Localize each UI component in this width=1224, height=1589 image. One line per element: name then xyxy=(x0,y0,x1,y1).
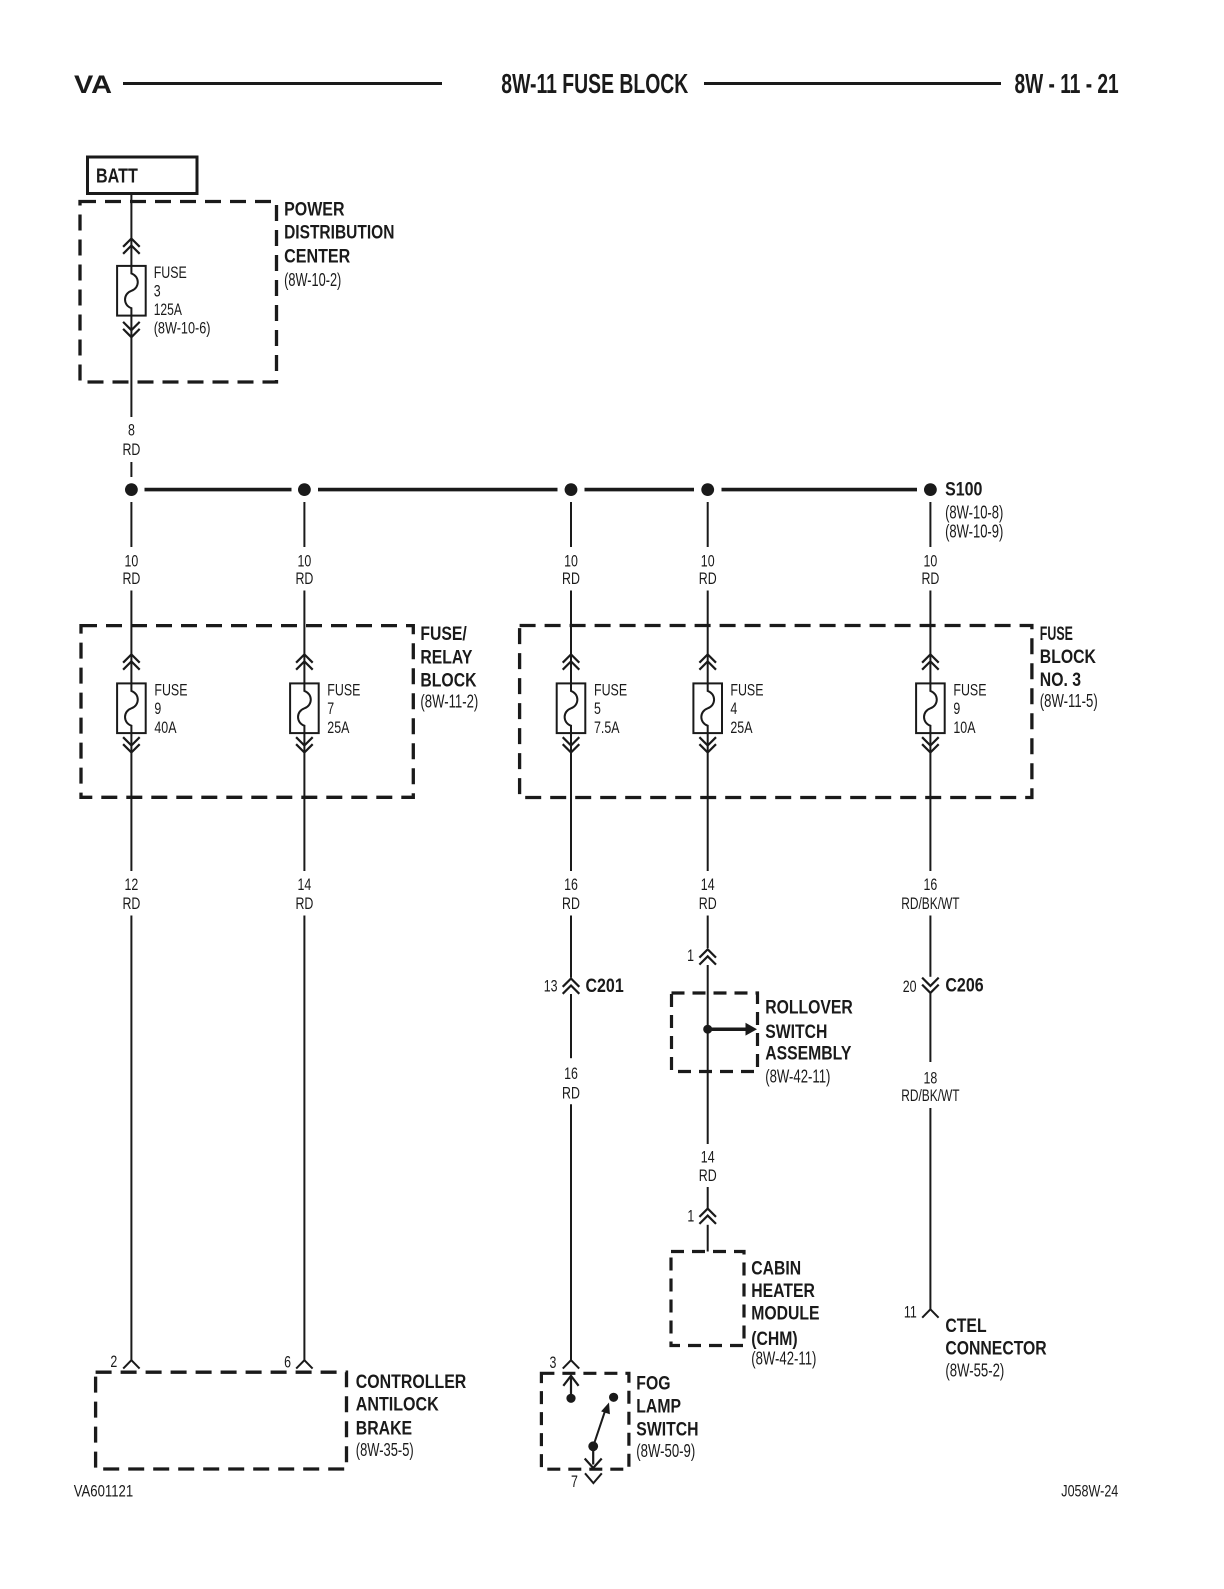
wire C206 to CTEL (18 RD/BK/WT) xyxy=(929,993,931,1062)
fog lamp switch pin 3 xyxy=(563,1360,579,1368)
wire splice drop 10 RD at x=131.4 xyxy=(130,502,132,547)
label fuse F4 value xyxy=(730,681,763,737)
fog lamp switch pivot xyxy=(588,1441,598,1451)
svg-text:10: 10 xyxy=(125,552,139,571)
label rollover switch assembly xyxy=(765,998,853,1087)
svg-text:40A: 40A xyxy=(154,718,177,737)
wire 12 RD to controller antilock brake xyxy=(130,916,132,1361)
wire into rollover switch xyxy=(707,965,709,1029)
label S100 xyxy=(945,480,1003,542)
connector C206 xyxy=(922,978,939,993)
connector C201 xyxy=(563,979,580,994)
wire fuse output at x=304.4 xyxy=(303,733,305,871)
svg-text:18: 18 xyxy=(924,1068,938,1087)
svg-text:9: 9 xyxy=(953,699,960,718)
label 12 RD xyxy=(122,875,140,913)
svg-text:CENTER: CENTER xyxy=(284,246,350,267)
label fuse F7 value xyxy=(327,681,360,737)
fog lamp switch box xyxy=(541,1373,629,1469)
svg-text:(8W-42-11): (8W-42-11) xyxy=(765,1067,830,1087)
svg-text:BLOCK: BLOCK xyxy=(420,671,476,692)
svg-text:FUSE: FUSE xyxy=(730,681,763,700)
svg-text:125A: 125A xyxy=(154,300,183,319)
svg-text:(8W-35-5): (8W-35-5) xyxy=(356,1440,414,1460)
svg-text:25A: 25A xyxy=(327,718,350,737)
label fuse F5 value xyxy=(594,681,627,737)
label 14 RD xyxy=(699,875,717,913)
svg-text:LAMP: LAMP xyxy=(636,1396,681,1417)
junction at branch 1 xyxy=(125,483,138,496)
label fuse/relay block xyxy=(420,624,478,711)
fuse/relay block box xyxy=(81,626,413,798)
svg-text:RD: RD xyxy=(122,440,140,459)
svg-text:RD: RD xyxy=(699,894,717,913)
svg-text:BATT: BATT xyxy=(96,166,138,188)
svg-text:RD/BK/WT: RD/BK/WT xyxy=(901,1086,959,1105)
svg-text:10: 10 xyxy=(701,552,715,571)
label fuse F3 value xyxy=(154,263,211,338)
svg-text:FUSE/: FUSE/ xyxy=(420,624,467,645)
wire 14 RD to controller antilock brake xyxy=(303,916,305,1361)
wire BATT to fuse F3 xyxy=(130,194,132,266)
label power distribution center xyxy=(284,199,394,290)
svg-text:(CHM): (CHM) xyxy=(751,1329,797,1350)
wire into fuse block xyxy=(130,591,132,684)
connector pin 1 chevrons (CHM) xyxy=(699,1209,716,1217)
svg-text:RD: RD xyxy=(122,894,140,913)
svg-text:10: 10 xyxy=(564,552,578,571)
CAB pin 2 xyxy=(123,1360,139,1368)
fog lamp switch contact (output) xyxy=(609,1393,618,1402)
svg-text:(8W-10-6): (8W-10-6) xyxy=(154,319,211,338)
svg-text:20: 20 xyxy=(903,977,917,996)
svg-text:ROLLOVER: ROLLOVER xyxy=(765,998,853,1019)
svg-text:(8W-50-9): (8W-50-9) xyxy=(636,1441,695,1461)
svg-text:RD: RD xyxy=(921,569,939,588)
svg-text:16: 16 xyxy=(564,1064,578,1083)
wire splice drop 10 RD at x=571 xyxy=(570,502,572,547)
svg-text:14: 14 xyxy=(701,1148,715,1167)
svg-text:RD: RD xyxy=(295,569,313,588)
terminal BATT xyxy=(88,157,198,194)
fuse F9 10A xyxy=(916,654,945,752)
label fuse F9 value xyxy=(953,681,986,737)
wire C201 to fog lamp switch (16 RD) xyxy=(570,994,572,1058)
svg-text:RD/BK/WT: RD/BK/WT xyxy=(901,894,959,913)
header rule right xyxy=(704,82,1001,85)
controller antilock brake box xyxy=(96,1372,347,1469)
svg-text:DISTRIBUTION: DISTRIBUTION xyxy=(284,223,394,244)
svg-text:RD: RD xyxy=(562,569,580,588)
svg-text:ANTILOCK: ANTILOCK xyxy=(356,1395,439,1416)
svg-text:HEATER: HEATER xyxy=(751,1281,815,1302)
splice S100 node xyxy=(924,483,937,496)
svg-text:RD: RD xyxy=(699,1166,717,1185)
svg-text:FUSE: FUSE xyxy=(953,681,986,700)
junction at branch 4 xyxy=(701,483,714,496)
svg-text:SWITCH: SWITCH xyxy=(636,1419,698,1440)
fuse F9 40A xyxy=(117,654,146,752)
svg-text:BRAKE: BRAKE xyxy=(356,1418,412,1439)
fuse F5 7.5A xyxy=(557,654,586,752)
svg-text:FUSE: FUSE xyxy=(1040,624,1073,645)
junction at branch 3 xyxy=(565,483,578,496)
wire splice drop 10 RD at x=707.7 xyxy=(707,502,709,547)
svg-text:13: 13 xyxy=(544,977,558,996)
wire 16 RD/BK/WT to connector C206 xyxy=(929,916,931,977)
svg-text:1: 1 xyxy=(687,1207,694,1226)
svg-text:8W-11 FUSE BLOCK: 8W-11 FUSE BLOCK xyxy=(501,68,688,99)
fog lamp switch pin 7 xyxy=(585,1473,602,1483)
svg-text:RD: RD xyxy=(699,569,717,588)
svg-text:16: 16 xyxy=(924,875,938,894)
svg-text:2: 2 xyxy=(110,1352,117,1371)
wire fuse F3 to splice S100 (8 RD) xyxy=(130,316,132,417)
wire 16 RD to connector C201 xyxy=(570,916,572,978)
svg-text:FUSE: FUSE xyxy=(327,681,360,700)
svg-text:FOG: FOG xyxy=(636,1374,670,1395)
svg-text:CTEL: CTEL xyxy=(945,1316,987,1337)
label fog lamp switch xyxy=(636,1374,698,1462)
svg-text:(8W-11-5): (8W-11-5) xyxy=(1040,691,1098,711)
svg-text:RD: RD xyxy=(295,894,313,913)
wire fuse output at x=707.7 xyxy=(707,733,709,871)
svg-text:C201: C201 xyxy=(586,976,625,997)
svg-text:(8W-55-2): (8W-55-2) xyxy=(945,1360,1004,1380)
svg-text:10: 10 xyxy=(298,552,312,571)
wire splice drop 10 RD at x=930.4 xyxy=(929,502,931,547)
fog lamp switch contact (input) xyxy=(566,1394,575,1403)
svg-text:4: 4 xyxy=(730,699,737,718)
wire segment above splice xyxy=(130,462,132,477)
label fuse block no. 3 xyxy=(1040,624,1098,711)
header rule left xyxy=(123,82,442,85)
wire into fuse block xyxy=(707,591,709,684)
svg-text:14: 14 xyxy=(298,875,312,894)
fuse F3 125A xyxy=(117,239,146,338)
wire into fuse block xyxy=(570,591,572,684)
svg-text:NO. 3: NO. 3 xyxy=(1040,670,1081,691)
wire 14 RD to cabin heater module xyxy=(707,1072,709,1145)
svg-text:VA: VA xyxy=(74,71,112,99)
fuse F4 25A xyxy=(693,654,722,752)
svg-text:(8W-42-11): (8W-42-11) xyxy=(751,1349,816,1369)
wire rollover switch through-feed xyxy=(707,1029,709,1071)
svg-text:CONNECTOR: CONNECTOR xyxy=(945,1339,1047,1360)
CTEL connector pin 11 xyxy=(922,1309,938,1317)
svg-text:S100: S100 xyxy=(945,480,982,501)
wire 14 RD to rollover switch xyxy=(707,916,709,949)
svg-text:POWER: POWER xyxy=(284,199,345,220)
label CTEL connector xyxy=(945,1316,1047,1380)
svg-text:3: 3 xyxy=(154,282,161,301)
svg-text:5: 5 xyxy=(594,699,601,718)
rollover switch assembly box xyxy=(672,993,758,1072)
rollover switch arrow xyxy=(712,1023,757,1036)
label fuse F9 value xyxy=(154,681,187,737)
fuse F7 25A xyxy=(290,654,319,752)
svg-text:(8W-10-9): (8W-10-9) xyxy=(945,521,1003,541)
svg-text:FUSE: FUSE xyxy=(154,681,187,700)
svg-text:7: 7 xyxy=(327,699,334,718)
label 8 RD xyxy=(122,421,140,460)
wire into fuse block xyxy=(303,591,305,684)
svg-text:(8W-10-2): (8W-10-2) xyxy=(284,270,341,290)
svg-text:(8W-10-8): (8W-10-8) xyxy=(945,502,1003,522)
svg-text:25A: 25A xyxy=(730,718,753,737)
wire into fuse block xyxy=(929,591,931,684)
svg-text:VA601121: VA601121 xyxy=(74,1482,134,1500)
svg-text:CABIN: CABIN xyxy=(751,1258,801,1279)
svg-text:MODULE: MODULE xyxy=(751,1304,819,1325)
connector pin 1 chevrons (rollover) xyxy=(699,949,716,957)
svg-text:3: 3 xyxy=(550,1353,557,1372)
svg-text:RELAY: RELAY xyxy=(420,647,472,668)
fuse block no. 3 box xyxy=(520,626,1032,798)
fog lamp switch input arrow xyxy=(563,1376,578,1399)
CAB pin 6 xyxy=(296,1360,312,1368)
svg-text:RD: RD xyxy=(562,1083,580,1102)
svg-text:10: 10 xyxy=(924,552,938,571)
wire splice drop 10 RD at x=304.4 xyxy=(303,502,305,547)
svg-text:1: 1 xyxy=(687,946,694,965)
svg-text:FUSE: FUSE xyxy=(594,681,627,700)
label 16 RD xyxy=(562,875,580,913)
svg-text:CONTROLLER: CONTROLLER xyxy=(356,1372,467,1393)
fog lamp switch blade xyxy=(593,1403,610,1447)
svg-text:14: 14 xyxy=(701,875,715,894)
label controller antilock brake xyxy=(356,1372,467,1460)
label 14 RD xyxy=(295,875,313,913)
svg-text:J058W-24: J058W-24 xyxy=(1061,1483,1118,1501)
svg-text:10A: 10A xyxy=(953,718,976,737)
svg-text:FUSE: FUSE xyxy=(154,263,187,282)
svg-text:RD: RD xyxy=(562,894,580,913)
power distribution center box xyxy=(80,202,277,383)
fog lamp switch output arrow down xyxy=(585,1451,602,1468)
svg-text:ASSEMBLY: ASSEMBLY xyxy=(765,1044,851,1065)
label 16 RD/BK/WT xyxy=(901,875,959,913)
wire into cabin heater module xyxy=(707,1225,709,1252)
svg-text:7.5A: 7.5A xyxy=(594,718,620,737)
wire fuse output at x=131.4 xyxy=(130,733,132,871)
svg-text:BLOCK: BLOCK xyxy=(1040,647,1096,668)
wire fuse output at x=930.4 xyxy=(929,733,931,871)
svg-text:(8W-11-2): (8W-11-2) xyxy=(420,692,478,712)
svg-text:C206: C206 xyxy=(945,976,983,997)
rollover switch tap junction xyxy=(703,1025,712,1034)
junction at branch 2 xyxy=(298,483,311,496)
svg-text:6: 6 xyxy=(284,1353,291,1372)
splice bus S100 xyxy=(145,488,918,492)
svg-text:16: 16 xyxy=(564,875,578,894)
svg-text:9: 9 xyxy=(154,699,161,718)
label cabin heater module xyxy=(751,1258,819,1368)
svg-text:RD: RD xyxy=(122,569,140,588)
wire fuse output at x=571 xyxy=(570,733,572,871)
svg-text:7: 7 xyxy=(571,1472,578,1491)
cabin heater module box xyxy=(671,1252,744,1346)
svg-text:SWITCH: SWITCH xyxy=(765,1022,827,1043)
svg-text:8: 8 xyxy=(128,421,135,440)
svg-text:12: 12 xyxy=(125,875,139,894)
svg-text:8W - 11 - 21: 8W - 11 - 21 xyxy=(1015,68,1119,99)
svg-text:11: 11 xyxy=(904,1303,917,1322)
